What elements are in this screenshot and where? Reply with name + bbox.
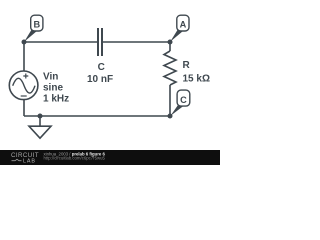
svg-text:C: C [180,95,187,105]
svg-text:C: C [98,62,105,73]
svg-text:15 kΩ: 15 kΩ [183,73,210,84]
svg-text:sine: sine [43,83,63,94]
svg-text:1 kHz: 1 kHz [43,94,69,105]
svg-text:A: A [180,20,187,30]
svg-text:10 nF: 10 nF [87,74,113,85]
svg-text:Vin: Vin [43,72,58,83]
svg-text:http://circuitlab.com/c6pc7r5w: http://circuitlab.com/c6pc7r5wu5 [44,156,106,161]
svg-text:B: B [33,20,40,30]
svg-text:R: R [183,60,191,71]
svg-text:LAB: LAB [23,159,36,165]
